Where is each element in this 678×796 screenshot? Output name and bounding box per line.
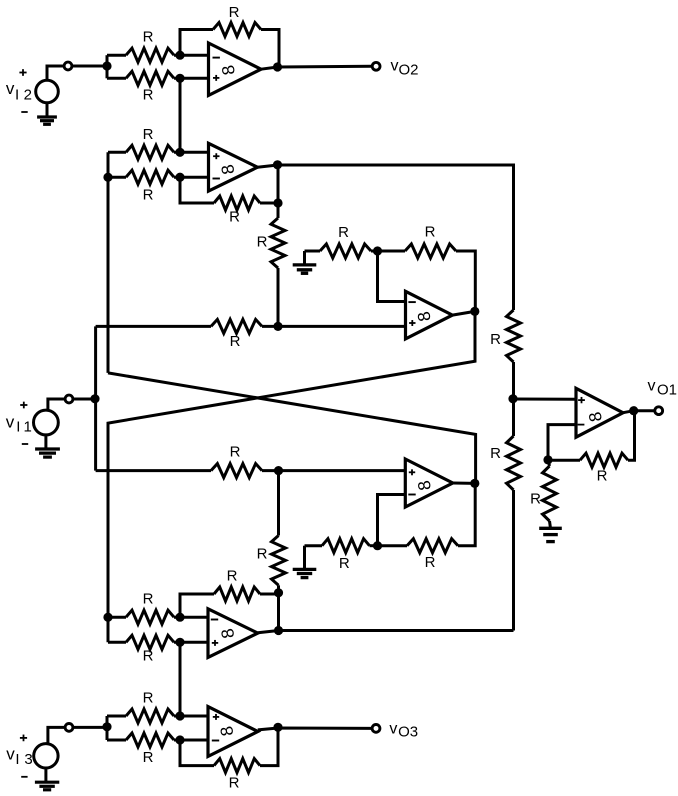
- svg-text:v: v: [391, 58, 399, 75]
- svg-text:R: R: [143, 186, 154, 203]
- svg-text:v: v: [389, 721, 397, 738]
- svg-text:R: R: [143, 126, 154, 143]
- svg-text:2: 2: [24, 87, 32, 104]
- svg-text:R: R: [230, 443, 241, 460]
- svg-text:v: v: [6, 412, 15, 431]
- svg-text:I: I: [15, 87, 19, 104]
- svg-text:R: R: [530, 490, 541, 507]
- svg-text:v: v: [6, 79, 15, 98]
- svg-text:R: R: [229, 4, 240, 21]
- svg-text:R: R: [143, 86, 154, 103]
- svg-text:R: R: [597, 467, 608, 484]
- svg-text:O2: O2: [399, 62, 419, 79]
- svg-text:R: R: [490, 445, 501, 462]
- svg-text:I: I: [15, 751, 19, 768]
- svg-text:R: R: [425, 223, 436, 240]
- svg-text:R: R: [143, 647, 154, 664]
- svg-text:v: v: [6, 745, 15, 764]
- svg-text:R: R: [143, 590, 154, 607]
- svg-text:R: R: [143, 749, 154, 766]
- svg-text:I: I: [16, 418, 20, 435]
- svg-text:R: R: [229, 208, 240, 225]
- svg-text:R: R: [229, 774, 240, 791]
- svg-text:R: R: [339, 555, 350, 572]
- svg-text:1: 1: [24, 418, 32, 435]
- svg-text:O1: O1: [657, 381, 677, 398]
- svg-text:R: R: [338, 224, 349, 241]
- svg-text:R: R: [257, 545, 268, 562]
- svg-text:R: R: [227, 567, 238, 584]
- svg-text:R: R: [143, 689, 154, 706]
- svg-text:v: v: [648, 377, 656, 394]
- svg-text:R: R: [230, 333, 241, 350]
- svg-text:3: 3: [24, 751, 32, 768]
- svg-text:R: R: [257, 233, 268, 250]
- svg-text:O3: O3: [398, 723, 418, 740]
- svg-text:R: R: [143, 28, 154, 45]
- svg-text:R: R: [425, 554, 436, 571]
- svg-text:R: R: [490, 331, 501, 348]
